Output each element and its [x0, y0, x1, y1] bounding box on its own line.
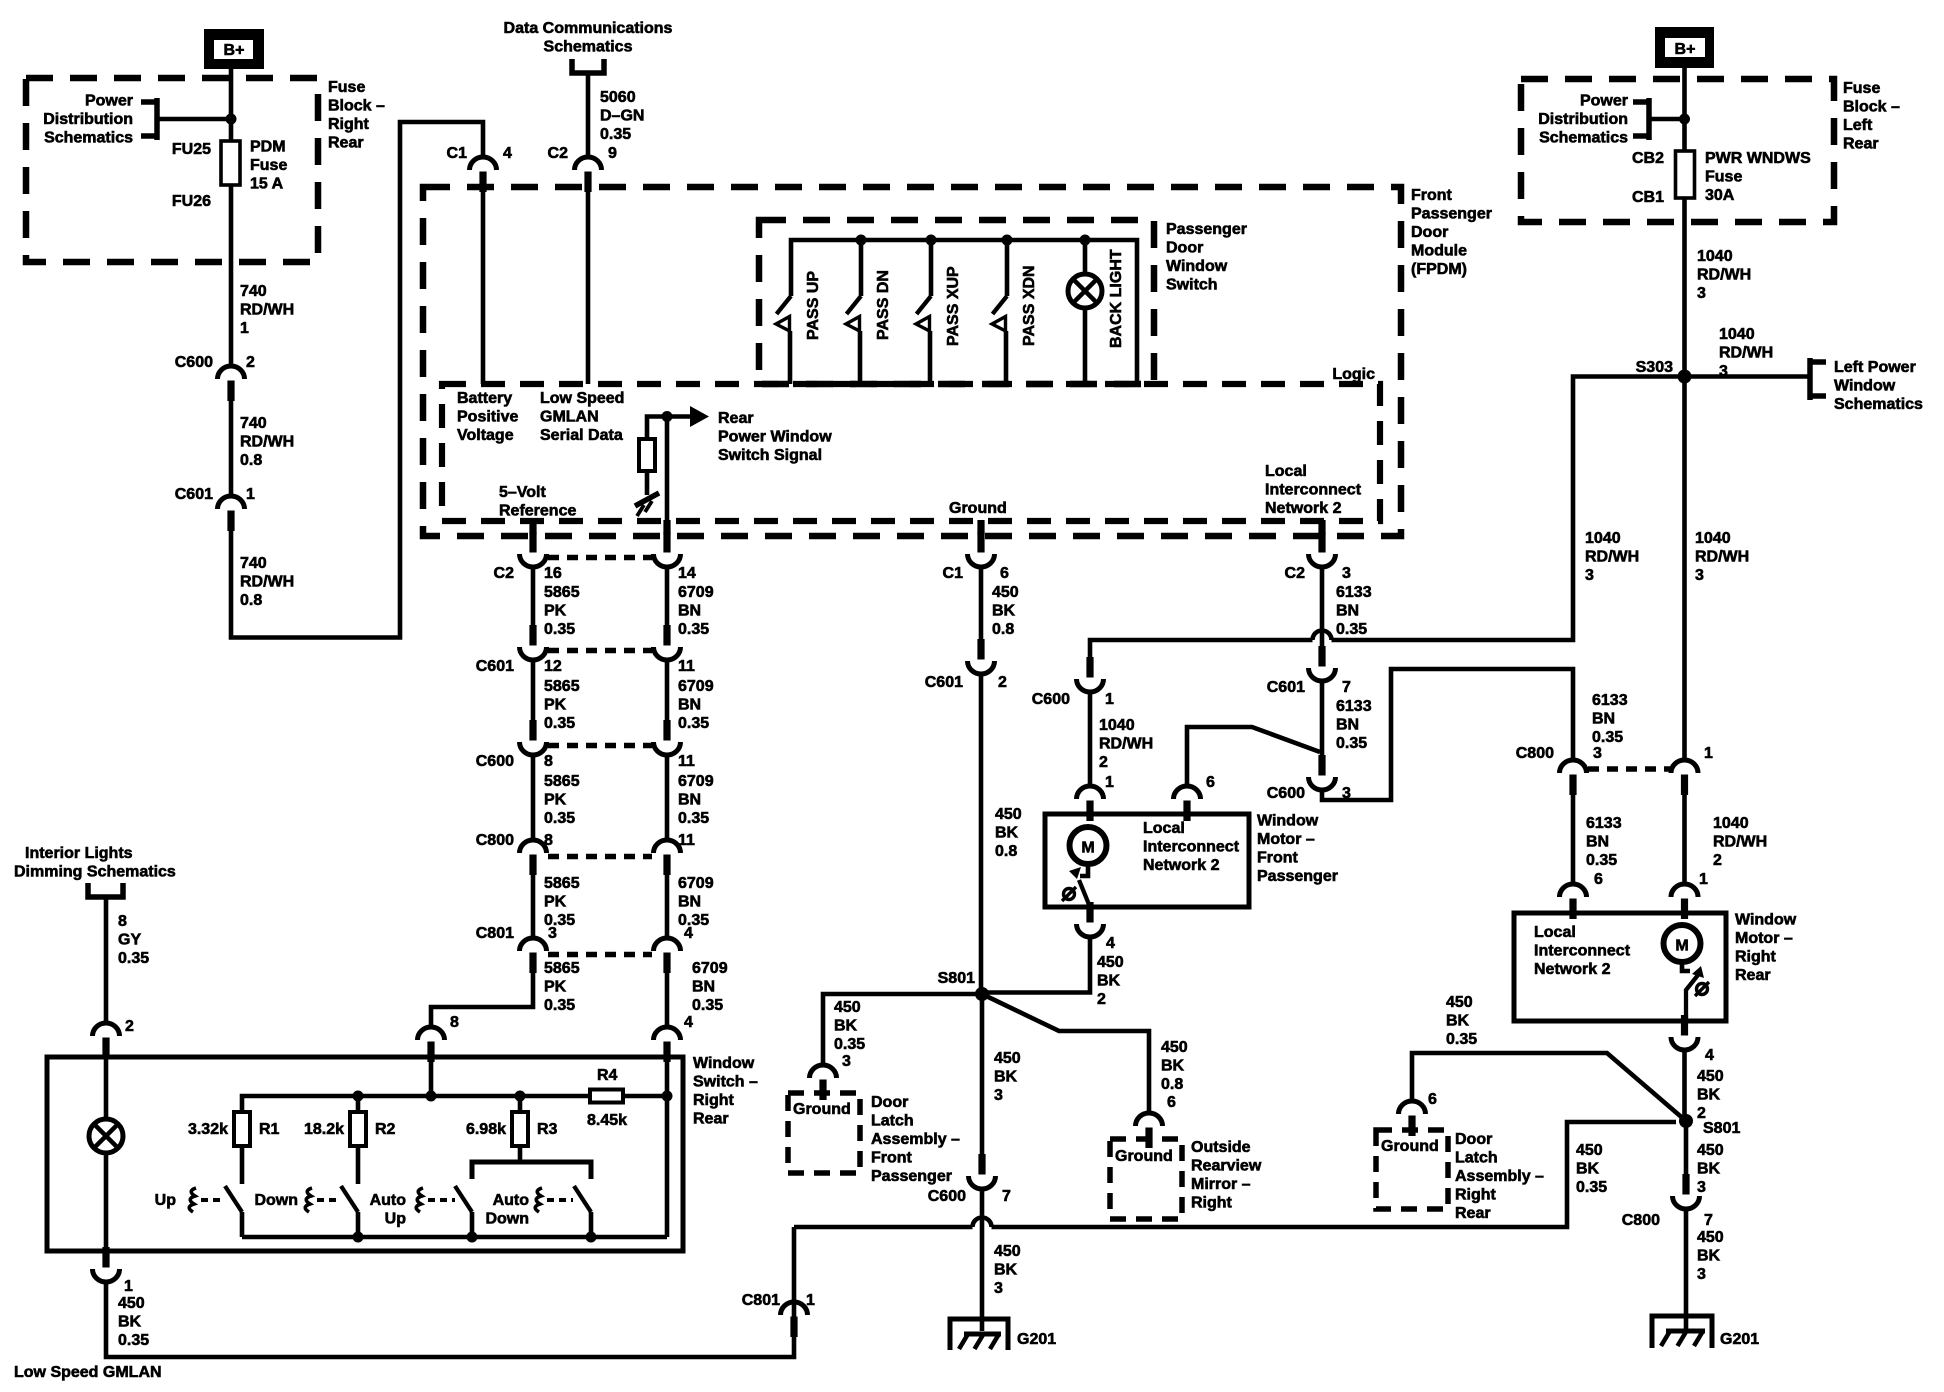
svg-text:0.8: 0.8: [240, 452, 262, 469]
svg-text:Fuse: Fuse: [250, 157, 287, 174]
tie C800-3/1: [1588, 766, 1670, 772]
svg-text:Serial Data: Serial Data: [540, 427, 623, 444]
svg-text:BN: BN: [1336, 717, 1359, 734]
svg-text:C800: C800: [1622, 1212, 1660, 1229]
tie C801-3/4: [548, 952, 652, 958]
svg-text:1: 1: [240, 320, 249, 337]
connector C601 pin 12: [529, 625, 536, 646]
svg-text:GMLAN: GMLAN: [540, 409, 599, 426]
pin stub extension C2-16: [529, 520, 536, 535]
svg-text:Data Communications: Data Communications: [504, 20, 673, 37]
wire C600-8 to C800-8: [531, 755, 536, 840]
svg-text:Latch: Latch: [1455, 1150, 1498, 1167]
svg-text:3: 3: [1593, 745, 1602, 762]
svg-text:450: 450: [834, 999, 861, 1016]
svg-text:0.35: 0.35: [600, 126, 631, 143]
wire pin2 to lamp: [104, 1056, 109, 1120]
power node B+ (left): [208, 33, 260, 65]
wire R2 to switch down: [356, 1146, 361, 1184]
junction dot switch signal: [662, 411, 673, 422]
connector C600 pin 3: [1318, 755, 1325, 776]
tie C2-16/14: [548, 555, 652, 561]
svg-text:BN: BN: [678, 894, 701, 911]
ground dashed box door latch front passenger: [788, 1093, 860, 1173]
connector C600 pin 7: [978, 1154, 985, 1175]
svg-text:0.35: 0.35: [834, 1036, 865, 1053]
svg-text:PK: PK: [544, 697, 567, 714]
svg-text:Right: Right: [1455, 1187, 1497, 1204]
svg-text:Ground: Ground: [1381, 1138, 1439, 1155]
wire fuse to C600-2: [229, 185, 234, 366]
wire C800-3 to RR motor pin 6: [1571, 794, 1576, 884]
splice S801 left: [975, 987, 989, 1001]
resistor ladder bus: [242, 1096, 590, 1112]
svg-text:6709: 6709: [678, 584, 714, 601]
connector C800 pin 1: [1681, 775, 1688, 796]
wire R1 to switch up: [240, 1146, 245, 1184]
svg-text:11: 11: [678, 658, 695, 675]
connector FP motor pin 1: [1086, 801, 1093, 822]
svg-text:C1: C1: [447, 145, 468, 162]
actuator dashes auto up: [428, 1198, 455, 1202]
svg-text:1040: 1040: [1719, 326, 1755, 343]
svg-text:450: 450: [1697, 1068, 1724, 1085]
junction dot pin8 entry: [426, 1091, 437, 1102]
chassis ground (FPDM internal): [635, 493, 659, 506]
svg-text:0.35: 0.35: [544, 621, 575, 638]
switch PASS UP: [777, 296, 792, 314]
svg-text:1040: 1040: [1099, 717, 1135, 734]
svg-text:Reference: Reference: [499, 503, 576, 520]
wire C1-6 to C601-2: [979, 567, 984, 647]
svg-text:PDM: PDM: [250, 139, 286, 156]
svg-text:CB2: CB2: [1632, 150, 1664, 167]
wire RR motor pin 4 to S801 right: [1682, 1050, 1687, 1121]
svg-text:Front: Front: [1411, 187, 1453, 204]
svg-text:Local: Local: [1265, 463, 1307, 480]
svg-text:(FPDM): (FPDM): [1411, 261, 1467, 278]
junction dot pass xdn: [1002, 235, 1013, 246]
spring symbol auto down: [535, 1188, 542, 1212]
junction dot pass dn: [856, 235, 867, 246]
connector C800 pin 7: [1682, 1174, 1689, 1195]
motor switch (front passenger): [1080, 863, 1088, 876]
svg-text:Switch Signal: Switch Signal: [718, 447, 822, 464]
svg-text:Front: Front: [871, 1150, 913, 1167]
connector C1 pin 4: [479, 172, 486, 193]
svg-text:M: M: [1081, 840, 1094, 857]
svg-text:6133: 6133: [1586, 815, 1622, 832]
svg-text:5865: 5865: [544, 773, 580, 790]
svg-text:740: 740: [240, 415, 267, 432]
svg-text:C801: C801: [476, 925, 514, 942]
wire C2-3 to C601-7: [1320, 567, 1325, 652]
svg-text:Logic: Logic: [1332, 366, 1375, 383]
connector door latch front passenger pin 3: [819, 1080, 826, 1101]
connector C600 pin 1: [1086, 657, 1093, 678]
svg-text:FU26: FU26: [172, 193, 211, 210]
svg-text:Door: Door: [1411, 224, 1448, 241]
switch PASS DN: [859, 240, 864, 296]
svg-text:RD/WH: RD/WH: [1585, 549, 1639, 566]
svg-text:Door: Door: [1455, 1131, 1492, 1148]
wire C601-1 to FPDM C1-4 (routed): [231, 122, 483, 638]
svg-text:Window: Window: [1834, 378, 1896, 395]
connector door latch right rear pin 6: [1408, 1116, 1415, 1137]
svg-text:Schematics: Schematics: [44, 130, 133, 147]
connector C600 pin 11: [663, 720, 670, 741]
wire FP motor pin 4 to S801: [982, 937, 1090, 993]
junction dot autoup-rail: [467, 1232, 478, 1243]
tie C800-8/11: [548, 854, 652, 860]
junction dot pin4 top: [662, 1091, 673, 1102]
svg-text:Right: Right: [1735, 949, 1777, 966]
svg-text:Window: Window: [1735, 912, 1797, 929]
wire CB1 to S303: [1682, 198, 1687, 377]
switch common rail: [242, 1235, 667, 1240]
svg-text:450: 450: [994, 1243, 1021, 1260]
svg-text:R4: R4: [597, 1067, 618, 1084]
wire C800-7 to G201 right: [1684, 1209, 1689, 1330]
svg-text:3.32k: 3.32k: [188, 1121, 228, 1138]
arrow rear power window switch signal: [690, 406, 709, 427]
svg-text:Auto: Auto: [370, 1192, 407, 1209]
switch Up: [225, 1186, 242, 1212]
switch Down: [341, 1186, 358, 1212]
svg-text:BK: BK: [1161, 1058, 1185, 1075]
wire pin1 to GMLAN bus corner: [106, 1282, 794, 1357]
svg-text:Fuse: Fuse: [328, 79, 365, 96]
svg-text:5865: 5865: [544, 678, 580, 695]
svg-text:C600: C600: [1267, 785, 1305, 802]
svg-text:RD/WH: RD/WH: [240, 574, 294, 591]
window motor front passenger box: [1045, 814, 1249, 907]
svg-text:BN: BN: [678, 792, 701, 809]
svg-text:Window: Window: [1166, 258, 1228, 275]
svg-text:RD/WH: RD/WH: [1099, 736, 1153, 753]
svg-text:Front: Front: [1257, 850, 1299, 867]
svg-text:R2: R2: [375, 1121, 396, 1138]
svg-text:R1: R1: [259, 1121, 280, 1138]
svg-text:2: 2: [1099, 754, 1108, 771]
wire back light bottom: [1083, 307, 1088, 384]
svg-text:B+: B+: [224, 42, 245, 59]
FPDM logic dashed box: [442, 384, 1380, 521]
off-page bracket power distribution (left): [141, 98, 157, 140]
svg-text:6: 6: [1428, 1091, 1437, 1108]
svg-text:Distribution: Distribution: [43, 111, 133, 128]
ground dashed box door latch right rear: [1376, 1130, 1448, 1209]
connector C600 pin 2: [227, 381, 234, 402]
fuse PDM 15A symbol: [221, 141, 240, 185]
svg-text:S801: S801: [938, 970, 975, 987]
wire lamp to pin 1: [104, 1152, 109, 1253]
svg-text:0.35: 0.35: [118, 1332, 149, 1349]
svg-text:5–Volt: 5–Volt: [499, 484, 547, 501]
wire C601-12 to C600-8: [531, 660, 536, 728]
wire S303 branch continues to C600-1: [1090, 640, 1313, 663]
connector C2 pin 3: [1318, 532, 1325, 553]
svg-text:Auto: Auto: [493, 1192, 530, 1209]
svg-text:14: 14: [678, 565, 696, 582]
ground bus left segment: [794, 1225, 973, 1230]
svg-text:BK: BK: [1697, 1248, 1721, 1265]
connector C600 pin 8: [529, 720, 536, 741]
wire back light top: [1083, 240, 1088, 275]
actuator dashes up: [201, 1198, 224, 1202]
hop S303 branch over 6133 chain: [1313, 631, 1332, 641]
junction dot R2 top: [353, 1091, 364, 1102]
svg-text:1040: 1040: [1697, 248, 1733, 265]
svg-text:8: 8: [450, 1014, 459, 1031]
svg-text:3: 3: [842, 1053, 851, 1070]
pin stub extension C2-14: [663, 520, 670, 535]
wire pin4 vertical: [665, 1058, 670, 1237]
svg-text:Right: Right: [328, 116, 370, 133]
junction dot back light: [1080, 235, 1091, 246]
svg-text:0.35: 0.35: [678, 810, 709, 827]
svg-text:BK: BK: [118, 1314, 142, 1331]
switch bus wire: [791, 240, 1137, 384]
svg-text:C600: C600: [928, 1188, 966, 1205]
svg-text:Low Speed: Low Speed: [540, 390, 624, 407]
svg-text:Local: Local: [1143, 820, 1185, 837]
svg-text:Schematics: Schematics: [1834, 396, 1923, 413]
svg-text:BK: BK: [994, 1069, 1018, 1086]
connector C801 pin 4: [663, 953, 670, 974]
svg-text:18.2k: 18.2k: [304, 1121, 344, 1138]
svg-text:Power: Power: [85, 93, 133, 110]
wire C601-2 to S801: [979, 674, 984, 994]
svg-text:Block –: Block –: [328, 98, 385, 115]
wire B+ to fuse FU25: [229, 69, 234, 141]
svg-text:PK: PK: [544, 792, 567, 809]
svg-text:0.8: 0.8: [992, 621, 1014, 638]
svg-text:16: 16: [544, 565, 562, 582]
svg-text:Passenger: Passenger: [1166, 221, 1247, 238]
wire bracket to B+ wire (right): [1649, 117, 1685, 122]
resistor R3: [512, 1112, 528, 1146]
svg-text:7: 7: [1704, 1212, 1713, 1229]
svg-text:Rear: Rear: [718, 410, 754, 427]
pin stub extension C2-3: [1318, 520, 1325, 535]
svg-text:Module: Module: [1411, 243, 1467, 260]
svg-text:3: 3: [1695, 567, 1704, 584]
svg-text:BN: BN: [692, 979, 715, 996]
svg-text:0.8: 0.8: [1161, 1076, 1183, 1093]
junction dot down-rail: [353, 1232, 364, 1243]
wire C2-16 to C601-12: [531, 567, 536, 633]
svg-text:BACK LIGHT: BACK LIGHT: [1108, 249, 1125, 348]
connector window switch pin 4: [663, 1042, 670, 1063]
svg-text:Door: Door: [1166, 240, 1203, 257]
svg-text:450: 450: [992, 584, 1019, 601]
svg-text:BK: BK: [1576, 1161, 1600, 1178]
svg-text:D–GN: D–GN: [600, 108, 644, 125]
connector C601 pin 2: [977, 639, 984, 660]
wire S801 right to door latch RR ground: [1412, 1053, 1686, 1121]
svg-text:Ground: Ground: [1115, 1148, 1173, 1165]
svg-text:Power: Power: [1580, 93, 1628, 110]
svg-text:1: 1: [1704, 745, 1713, 762]
svg-text:C600: C600: [175, 354, 213, 371]
svg-text:Positive: Positive: [457, 409, 518, 426]
spring symbol auto up: [416, 1188, 423, 1212]
fuse block right rear (dashed box): [26, 78, 318, 262]
svg-text:C2: C2: [494, 565, 515, 582]
ground dashed box mirror: [1110, 1139, 1182, 1219]
fuse block left rear (dashed box): [1521, 79, 1834, 222]
svg-text:0.35: 0.35: [544, 810, 575, 827]
svg-text:Door: Door: [871, 1094, 908, 1111]
svg-text:0.35: 0.35: [1592, 729, 1623, 746]
spring symbol up: [189, 1188, 196, 1212]
svg-text:450: 450: [118, 1295, 145, 1312]
svg-text:Outside: Outside: [1191, 1139, 1251, 1156]
svg-text:C600: C600: [476, 753, 514, 770]
svg-text:Up: Up: [385, 1211, 407, 1228]
svg-text:0.35: 0.35: [544, 715, 575, 732]
wire R3 to auto switches T-bar: [518, 1146, 523, 1162]
svg-text:Motor –: Motor –: [1257, 831, 1315, 848]
pin stub extension C1-6: [977, 520, 984, 535]
svg-text:1040: 1040: [1695, 530, 1731, 547]
svg-text:Power Window: Power Window: [718, 429, 832, 446]
svg-text:5865: 5865: [544, 960, 580, 977]
svg-text:RD/WH: RD/WH: [240, 434, 294, 451]
ground G201 (right): [1652, 1316, 1712, 1348]
svg-text:PK: PK: [544, 603, 567, 620]
junction dot at fuse feed: [226, 114, 237, 125]
svg-text:Interconnect: Interconnect: [1534, 943, 1631, 960]
svg-text:PASS DN: PASS DN: [875, 270, 892, 340]
svg-text:0.35: 0.35: [692, 997, 723, 1014]
wire C801-3 to window switch pin 8: [431, 972, 533, 1027]
wire C601-11 to C600-11: [665, 660, 670, 728]
wire C601-7 to C600-3: [1320, 681, 1325, 755]
svg-text:Passenger: Passenger: [871, 1168, 952, 1185]
wire C600-7 to G201: [980, 1189, 985, 1331]
svg-text:S303: S303: [1636, 359, 1673, 376]
svg-text:1: 1: [1699, 871, 1708, 888]
connector C2 pin 14: [663, 532, 670, 553]
svg-text:3: 3: [548, 925, 557, 942]
svg-text:Window: Window: [1257, 813, 1319, 830]
svg-text:M: M: [1675, 938, 1688, 955]
svg-text:Fuse: Fuse: [1705, 169, 1742, 186]
svg-text:Interior Lights: Interior Lights: [25, 845, 133, 862]
circuit breaker PWR WNDWS 30A: [1676, 151, 1695, 198]
svg-text:0.35: 0.35: [678, 621, 709, 638]
svg-text:0.35: 0.35: [1586, 852, 1617, 869]
svg-text:8: 8: [544, 753, 553, 770]
svg-text:6: 6: [1594, 871, 1603, 888]
wire C800-1 to RR motor pin 1: [1682, 794, 1687, 884]
switch Auto Down: [574, 1186, 591, 1212]
ground bus right segment: [992, 1122, 1677, 1227]
connector C800 pin 11: [663, 855, 670, 876]
svg-text:3: 3: [1342, 565, 1351, 582]
svg-text:Motor –: Motor –: [1735, 930, 1793, 947]
svg-text:G201: G201: [1720, 1331, 1759, 1348]
svg-text:6709: 6709: [678, 678, 714, 695]
svg-text:3: 3: [1585, 567, 1594, 584]
svg-text:0.35: 0.35: [544, 997, 575, 1014]
svg-text:4: 4: [684, 1014, 693, 1031]
svg-text:Window: Window: [693, 1055, 755, 1072]
svg-text:740: 740: [240, 283, 267, 300]
svg-text:0.35: 0.35: [1336, 621, 1367, 638]
wire S801 to mirror ground (diagonal): [982, 994, 1149, 1113]
svg-text:0.35: 0.35: [1336, 735, 1367, 752]
svg-text:C601: C601: [925, 674, 963, 691]
svg-text:Battery: Battery: [457, 390, 512, 407]
svg-text:Left: Left: [1843, 117, 1873, 134]
svg-text:C601: C601: [476, 658, 514, 675]
svg-text:PWR WNDWS: PWR WNDWS: [1705, 150, 1811, 167]
connector C800 pin 3: [1569, 775, 1576, 796]
svg-text:BK: BK: [1446, 1013, 1470, 1030]
svg-text:G201: G201: [1017, 1331, 1056, 1348]
svg-text:2: 2: [1097, 991, 1106, 1008]
lamp BACK LIGHT: [1068, 274, 1102, 308]
svg-text:1: 1: [1105, 691, 1114, 708]
svg-text:BN: BN: [678, 603, 701, 620]
svg-text:Network 2: Network 2: [1265, 500, 1342, 517]
wire C600-3 to C800-3 (routed): [1322, 669, 1573, 800]
svg-text:740: 740: [240, 555, 267, 572]
svg-text:1040: 1040: [1585, 530, 1621, 547]
wire C1-4 into logic (battery positive voltage): [481, 188, 486, 384]
svg-text:C600: C600: [1032, 691, 1070, 708]
svg-text:RD/WH: RD/WH: [1713, 834, 1767, 851]
svg-text:1: 1: [1105, 774, 1114, 791]
junction dot pass xup: [926, 235, 937, 246]
svg-text:PASS XUP: PASS XUP: [945, 266, 962, 346]
svg-text:6: 6: [1000, 565, 1009, 582]
svg-text:Rear: Rear: [1455, 1205, 1491, 1222]
wire S303 left branch to C600-1: [1332, 377, 1685, 641]
svg-text:6133: 6133: [1592, 692, 1628, 709]
svg-text:6: 6: [1167, 1094, 1176, 1111]
connector RR motor pin 4: [1681, 1015, 1688, 1036]
svg-text:2: 2: [1713, 852, 1722, 869]
svg-text:450: 450: [1697, 1229, 1724, 1246]
svg-text:Schematics: Schematics: [544, 39, 633, 56]
connector mirror pin 6: [1145, 1128, 1152, 1149]
svg-text:6709: 6709: [692, 960, 728, 977]
svg-text:Ground: Ground: [949, 500, 1007, 517]
svg-text:BN: BN: [678, 697, 701, 714]
power node B+ (right): [1659, 31, 1710, 64]
svg-text:3: 3: [1697, 1266, 1706, 1283]
svg-text:Latch: Latch: [871, 1113, 914, 1130]
wire data comm to C2-9: [586, 73, 591, 158]
svg-text:Rear: Rear: [1735, 967, 1771, 984]
tie C600-8/11: [548, 743, 652, 749]
wire C800-11 to C801-4: [665, 874, 670, 938]
wire C2-14 to C601-11: [665, 567, 670, 633]
resistor R2: [350, 1112, 366, 1146]
connector FP motor pin 6: [1183, 801, 1190, 822]
svg-text:Local: Local: [1534, 924, 1576, 941]
window motor right rear box: [1514, 913, 1726, 1021]
connector C1 pin 6: [977, 532, 984, 553]
svg-text:Passenger: Passenger: [1257, 868, 1338, 885]
wire S801 right down to C800-7: [1684, 1121, 1689, 1180]
wire resistor to switch signal node: [647, 417, 690, 440]
svg-text:BN: BN: [1586, 834, 1609, 851]
